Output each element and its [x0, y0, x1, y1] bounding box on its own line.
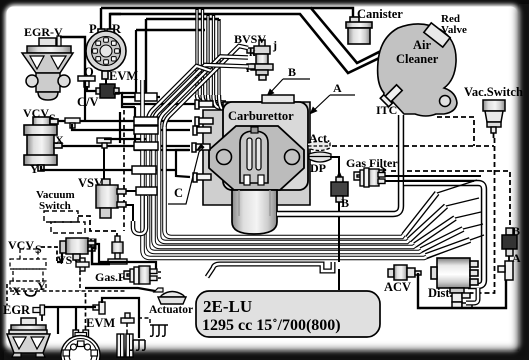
wire bundle vertical 5 — [165, 127, 438, 237]
wire x85 down to S line — [84, 81, 86, 121]
sleeve y130 — [134, 126, 158, 134]
nozzle y121 — [195, 117, 213, 126]
EGR-V valve — [22, 38, 73, 100]
actuator diaphragm DP — [308, 152, 331, 162]
wire to actuator — [85, 288, 155, 291]
dashed wire Act to right — [437, 117, 474, 146]
wire P stem up to top rail — [100, 8, 102, 29]
vac switch sensor — [483, 100, 505, 133]
dashed wire gas filter to B capsule — [391, 171, 510, 228]
svg-text:DP: DP — [310, 161, 326, 175]
wire y150 from riser — [135, 107, 189, 150]
dashed wire to actuator stem — [85, 293, 87, 331]
wire X to carb — [62, 145, 190, 147]
svg-text:Canister: Canister — [357, 7, 403, 21]
wire drop x197 — [195, 8, 198, 96]
tee EVM — [121, 313, 134, 323]
wire gas filter right upper — [385, 175, 481, 177]
mid capsule A/B — [331, 177, 348, 202]
wire rail y28 — [136, 29, 205, 31]
check valve black on wire — [82, 239, 96, 249]
wire drop x219 — [217, 19, 220, 96]
hook glyph — [25, 291, 36, 296]
sleeve y170 — [132, 166, 156, 174]
Q tee fitting — [78, 76, 95, 87]
wire vertical x136 — [122, 30, 136, 93]
carb top port — [262, 95, 294, 103]
gas filter arrow — [376, 167, 386, 173]
carburettor top box — [223, 102, 308, 190]
dashed wire DP to vac switch junction — [332, 145, 494, 147]
svg-text:Vac.Switch: Vac.Switch — [464, 85, 523, 99]
dashed wire long y291 — [10, 290, 127, 292]
wire y139 crossing — [104, 138, 150, 140]
carburettor venturi — [240, 127, 268, 185]
sleeve y191 — [136, 187, 157, 195]
svg-text:Y: Y — [30, 162, 39, 176]
coil bars — [117, 334, 133, 357]
svg-text:Actuator: Actuator — [149, 304, 193, 316]
wire VSV bottom left elbow — [57, 252, 62, 262]
plug wire 5 sheath — [404, 193, 437, 235]
wire C/V to right riser — [115, 93, 135, 107]
VSV solenoid — [96, 179, 126, 218]
wire EVM stub to C/V — [105, 79, 107, 85]
wire y130 to carb — [72, 124, 190, 130]
diagonal wire 1 — [165, 46, 249, 127]
nozzle y150 — [192, 143, 210, 152]
svg-text:Cleaner: Cleaner — [396, 52, 439, 66]
plug wire tip leaders — [437, 180, 484, 240]
carburettor bolt left — [217, 150, 232, 165]
distributor shaft — [450, 288, 472, 308]
wire y104 to carb — [122, 103, 195, 105]
VCV dashed valve — [10, 249, 46, 289]
wire EGR tee — [44, 307, 96, 334]
tee under filter — [108, 259, 127, 264]
plug wire 2 sheath — [421, 229, 463, 250]
wire drop x202 — [201, 8, 204, 96]
sleeve y97 — [135, 93, 157, 101]
VSV valve bottom — [60, 238, 95, 260]
C/V check valve — [96, 84, 119, 98]
svg-text:EVM: EVM — [109, 69, 138, 83]
inline filter small — [112, 236, 123, 259]
svg-text:EVM: EVM — [86, 316, 115, 330]
svg-text:Switch: Switch — [39, 200, 71, 212]
svg-text:2E-LU: 2E-LU — [203, 297, 252, 316]
wire bundle vertical 2 — [148, 121, 463, 252]
svg-text:EGR: EGR — [3, 303, 31, 317]
actuator circle bottom — [61, 330, 100, 360]
VCV valve — [24, 117, 62, 171]
wire tee to EGR cap — [41, 315, 43, 321]
BVSV valve — [247, 40, 273, 80]
ACV valve — [388, 265, 421, 280]
pipe branch to distributor box — [404, 183, 484, 286]
plug wire 1 sheath — [426, 240, 470, 256]
air cleaner bolt — [440, 96, 451, 107]
dashed wire X down — [6, 284, 8, 305]
wire y97 to bundle — [122, 96, 160, 98]
vacuum switch dashed box 2 — [51, 222, 85, 233]
wire S to carb — [58, 120, 192, 122]
comb connector 1 — [150, 325, 168, 336]
svg-text:ACV: ACV — [384, 280, 411, 294]
EGR-V outlet stub — [57, 36, 61, 46]
right capsule B/A — [502, 228, 517, 256]
wire Q tee to C/V — [87, 86, 97, 91]
actuator diaphragm Act — [308, 142, 330, 151]
dashed wire x74 — [79, 271, 81, 291]
dashed wire vacuum switch to filter — [78, 216, 117, 236]
carburettor inlet curl 2 — [203, 95, 227, 105]
pipe air cleaner down to carb — [277, 115, 401, 214]
wire ACV down and to elbow — [418, 273, 506, 308]
wire EGR-V to Q tee — [60, 37, 85, 76]
wire rail y298 — [102, 298, 139, 338]
svg-text:C: C — [174, 186, 183, 200]
svg-text:Gas.F: Gas.F — [95, 270, 125, 284]
svg-text:k: k — [249, 45, 256, 59]
wire gas filter right lower — [385, 180, 474, 182]
diagonal wire 2 — [159, 57, 248, 126]
wire drop x208 — [206, 14, 209, 96]
dashed wire to combs — [138, 318, 150, 325]
canister body — [346, 17, 372, 44]
wire rail y19 — [146, 18, 219, 20]
red valve — [424, 23, 450, 47]
wire mid capsule lower tail — [338, 269, 340, 290]
vacuum switch dashed box 1 — [44, 211, 78, 222]
pipe dist elbow hook — [466, 288, 478, 303]
tee EGR left — [33, 305, 45, 315]
svg-text:1295 cc 15˚/700(800): 1295 cc 15˚/700(800) — [202, 317, 341, 334]
wire tee to VSV — [103, 148, 105, 180]
wire into mid capsule — [330, 157, 339, 182]
wire bundle vertical 3 — [154, 123, 456, 247]
diagonal wire 4 — [148, 66, 210, 121]
svg-text:A: A — [333, 81, 342, 95]
wire R stem up — [110, 14, 121, 29]
carburettor bolt right — [285, 150, 300, 165]
EVM top unit (P/R circle) — [86, 29, 126, 79]
wire top rail outer — [101, 8, 429, 63]
air cleaner body — [378, 24, 457, 116]
gas filter bottom solenoid — [124, 266, 163, 284]
svg-text:Carburettor: Carburettor — [228, 109, 294, 123]
carburettor inlet curl 4 — [214, 95, 228, 108]
svg-text:ITC: ITC — [376, 103, 397, 117]
tee EGR top — [93, 302, 105, 314]
plug wire 3 sheath — [415, 218, 455, 245]
wire elbow to gas filter line — [78, 244, 150, 262]
carburettor inlet curl 1 — [197, 95, 226, 103]
dashed wire EVM tee down — [126, 323, 128, 334]
J hook drain — [133, 196, 146, 234]
tee below VSV — [76, 258, 89, 271]
tee on S wire — [65, 118, 80, 128]
svg-text:B: B — [288, 65, 296, 79]
wire vertical x146 — [145, 19, 147, 96]
elbow fitting right — [498, 261, 513, 280]
ITC tube — [380, 83, 403, 106]
wire VSV upper stub to bundle — [126, 190, 138, 192]
sleeve y146 — [134, 142, 158, 150]
wire rail to canister — [311, 8, 353, 22]
wire bundle vertical 1 — [143, 80, 471, 258]
wire drop x213 — [212, 14, 215, 96]
wire right capsule to elbow — [508, 256, 510, 262]
wire mid capsule down — [338, 202, 340, 262]
nozzle y130 — [193, 126, 211, 135]
svg-text:VCV: VCV — [8, 238, 34, 252]
wire filter inlet — [150, 262, 156, 269]
wire VSV lower stub to hook — [126, 205, 133, 221]
wire to actuator stem solid — [75, 307, 77, 331]
dashed wire x124 down — [123, 110, 125, 231]
gas filter center — [354, 168, 385, 187]
svg-text:B: B — [341, 196, 349, 210]
carburettor inlet curl 3 — [208, 95, 226, 107]
plug wire 4 sheath — [409, 206, 446, 240]
carburettor body block — [203, 102, 310, 205]
actuator dome — [154, 288, 186, 304]
wire Y long — [41, 166, 177, 170]
nozzle y104 — [195, 100, 213, 109]
tee on X wire to VSV — [97, 138, 111, 148]
wire top rail inner — [110, 14, 421, 73]
svg-text:j: j — [272, 38, 277, 52]
dashed wire S to VSV elbow — [41, 247, 57, 262]
diagonal wire 3 — [154, 65, 249, 123]
carburettor inlet curl 5 — [219, 95, 228, 110]
svg-text:Gas Filter: Gas Filter — [346, 156, 398, 170]
wire VSV out — [92, 248, 110, 264]
info box 2E-LU — [196, 291, 380, 337]
wire C route — [120, 112, 190, 177]
EGR valve bottom — [7, 318, 50, 357]
sleeve y121 — [134, 117, 158, 125]
comb connector 2 — [130, 340, 145, 350]
wire vac switch drop — [493, 133, 495, 138]
distributor body — [431, 258, 478, 288]
carburettor flange plate — [209, 126, 304, 190]
long pipe bottom — [207, 262, 333, 277]
dashed wire x497 down to dist — [470, 138, 495, 293]
carburettor lower barrel — [232, 190, 277, 234]
svg-text:Air: Air — [413, 38, 432, 52]
svg-text:C/V: C/V — [77, 95, 99, 109]
barrel inner line — [239, 190, 270, 216]
wire bundle vertical 4 — [159, 125, 446, 242]
nozzle y177 — [193, 173, 211, 182]
